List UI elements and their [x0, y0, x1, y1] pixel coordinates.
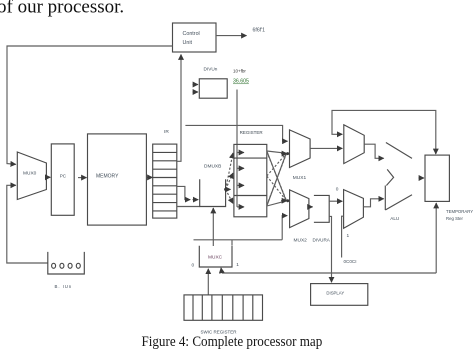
- svg-text:10+fbr: 10+fbr: [233, 69, 246, 74]
- wire: register to mux crossbar: [267, 151, 286, 153]
- demux DMUXB (open-top): [177, 206, 200, 208]
- svg-text:DISPLAY: DISPLAY: [326, 291, 344, 296]
- wire: MUX4 output to ALU: [363, 199, 383, 207]
- svg-text:REGISTER: REGISTER: [240, 130, 264, 135]
- wire: branch arrows into register rows: [237, 152, 244, 154]
- mux MUX0: [17, 152, 46, 200]
- wire: buffer to MUX4 input 0: [329, 200, 342, 202]
- svg-text:Figure 4: Complete processor m: Figure 4: Complete processor map: [141, 333, 322, 350]
- wire: MUX2 lower input stub: [282, 216, 287, 240]
- wire: horizontal bus to MUX1 top input: [185, 125, 287, 141]
- wire: vertical bus from 36.605 label through register file: [236, 90, 238, 207]
- svg-text:0C0CI: 0C0CI: [344, 259, 357, 264]
- button box (open top): [48, 252, 85, 274]
- mux MUX2: [290, 190, 309, 228]
- display DISPLAY: [311, 284, 368, 306]
- wire: branch down to display: [331, 273, 333, 282]
- svg-text:6f6f'1: 6f6f'1: [253, 28, 266, 34]
- wire: MUX3 output to ALU: [364, 144, 384, 158]
- wire: DIVUn input stubs: [193, 84, 199, 86]
- svg-text:Unit: Unit: [183, 40, 193, 46]
- svg-text:Control: Control: [183, 31, 200, 37]
- svg-text:0: 0: [336, 187, 339, 193]
- wire: ALU to TEMP register: [419, 177, 425, 179]
- wire: IR stack to control unit: [177, 55, 181, 162]
- wire: MUX0 to PC: [46, 176, 50, 178]
- svg-text:DIVUn: DIVUn: [204, 67, 218, 72]
- svg-text:PC: PC: [60, 174, 67, 179]
- node: crossbar convergence dots: [286, 152, 289, 155]
- svg-text:MUX1: MUX1: [293, 175, 307, 181]
- svg-text:MEMORY: MEMORY: [96, 174, 119, 180]
- wire: button box to MUX0 input 2: [7, 185, 48, 263]
- mux MUX3: [344, 125, 364, 164]
- wire: control unit left feedback down the left side: [7, 46, 173, 164]
- memory block: [88, 134, 147, 225]
- svg-text:DMUXB: DMUXB: [204, 164, 221, 170]
- alu ALU: [385, 143, 412, 211]
- wire: SWIC register to MUXC input 0: [207, 269, 209, 295]
- svg-text:MUX0: MUX0: [23, 171, 37, 177]
- buffer box after MUX2: [314, 195, 329, 222]
- wire: dashed fanout DMUXB to register file: [226, 153, 233, 204]
- mux MUX4: [344, 190, 364, 229]
- register stack IR: [153, 144, 177, 218]
- svg-text:of our processor.: of our processor.: [0, 0, 124, 18]
- mux MUXC (open top): [199, 246, 232, 267]
- button circles: [52, 263, 81, 268]
- svg-text:0: 0: [192, 263, 195, 269]
- register TEMP: [425, 155, 449, 201]
- svg-text:1: 1: [347, 233, 350, 239]
- wire: MEMORY to IR stack: [147, 176, 153, 178]
- svg-text:Reg Ster: Reg Ster: [446, 216, 464, 221]
- wire: MUX2 output into buffer: [309, 206, 313, 208]
- wire: IR stack to DMUXB with double arrow: [177, 186, 190, 199]
- wire: MUX1 output to MUX3: [310, 147, 342, 149]
- wire: MUX4 select from below: [342, 216, 344, 257]
- control unit U1: [173, 23, 217, 52]
- register SWIC: [184, 295, 263, 320]
- wire: branch up to buffer: [329, 216, 331, 273]
- svg-text:MUXC: MUXC: [208, 255, 223, 261]
- svg-text:ALU: ALU: [390, 216, 399, 221]
- register PC: [51, 144, 74, 215]
- mux MUX1: [290, 130, 311, 168]
- wire: top feedback line into MUX3 and TEMP register: [332, 110, 436, 154]
- wire: MUXC up to DMUXB: [212, 208, 214, 246]
- node: fan origin junction dot: [224, 188, 227, 191]
- wire: control unit output to label: [216, 35, 247, 37]
- svg-text:IR: IR: [164, 129, 169, 135]
- wire: feedback from TEMP register bottom: [435, 203, 437, 273]
- svg-text:36.605: 36.605: [233, 79, 249, 85]
- wire: into MUXC input 1: [220, 268, 223, 273]
- svg-text:1: 1: [236, 262, 239, 268]
- svg-text:B. IUn: B. IUn: [55, 284, 73, 289]
- wire: PC to MEMORY: [78, 177, 87, 179]
- register file: [234, 144, 267, 216]
- demux DIVUn block: [199, 79, 227, 98]
- svg-text:MUX2: MUX2: [294, 238, 308, 244]
- junction arrows into MUX1/MUX2: [281, 153, 287, 155]
- svg-text:DIVURA: DIVURA: [313, 238, 331, 243]
- svg-text:TEMPORARY: TEMPORARY: [446, 209, 473, 214]
